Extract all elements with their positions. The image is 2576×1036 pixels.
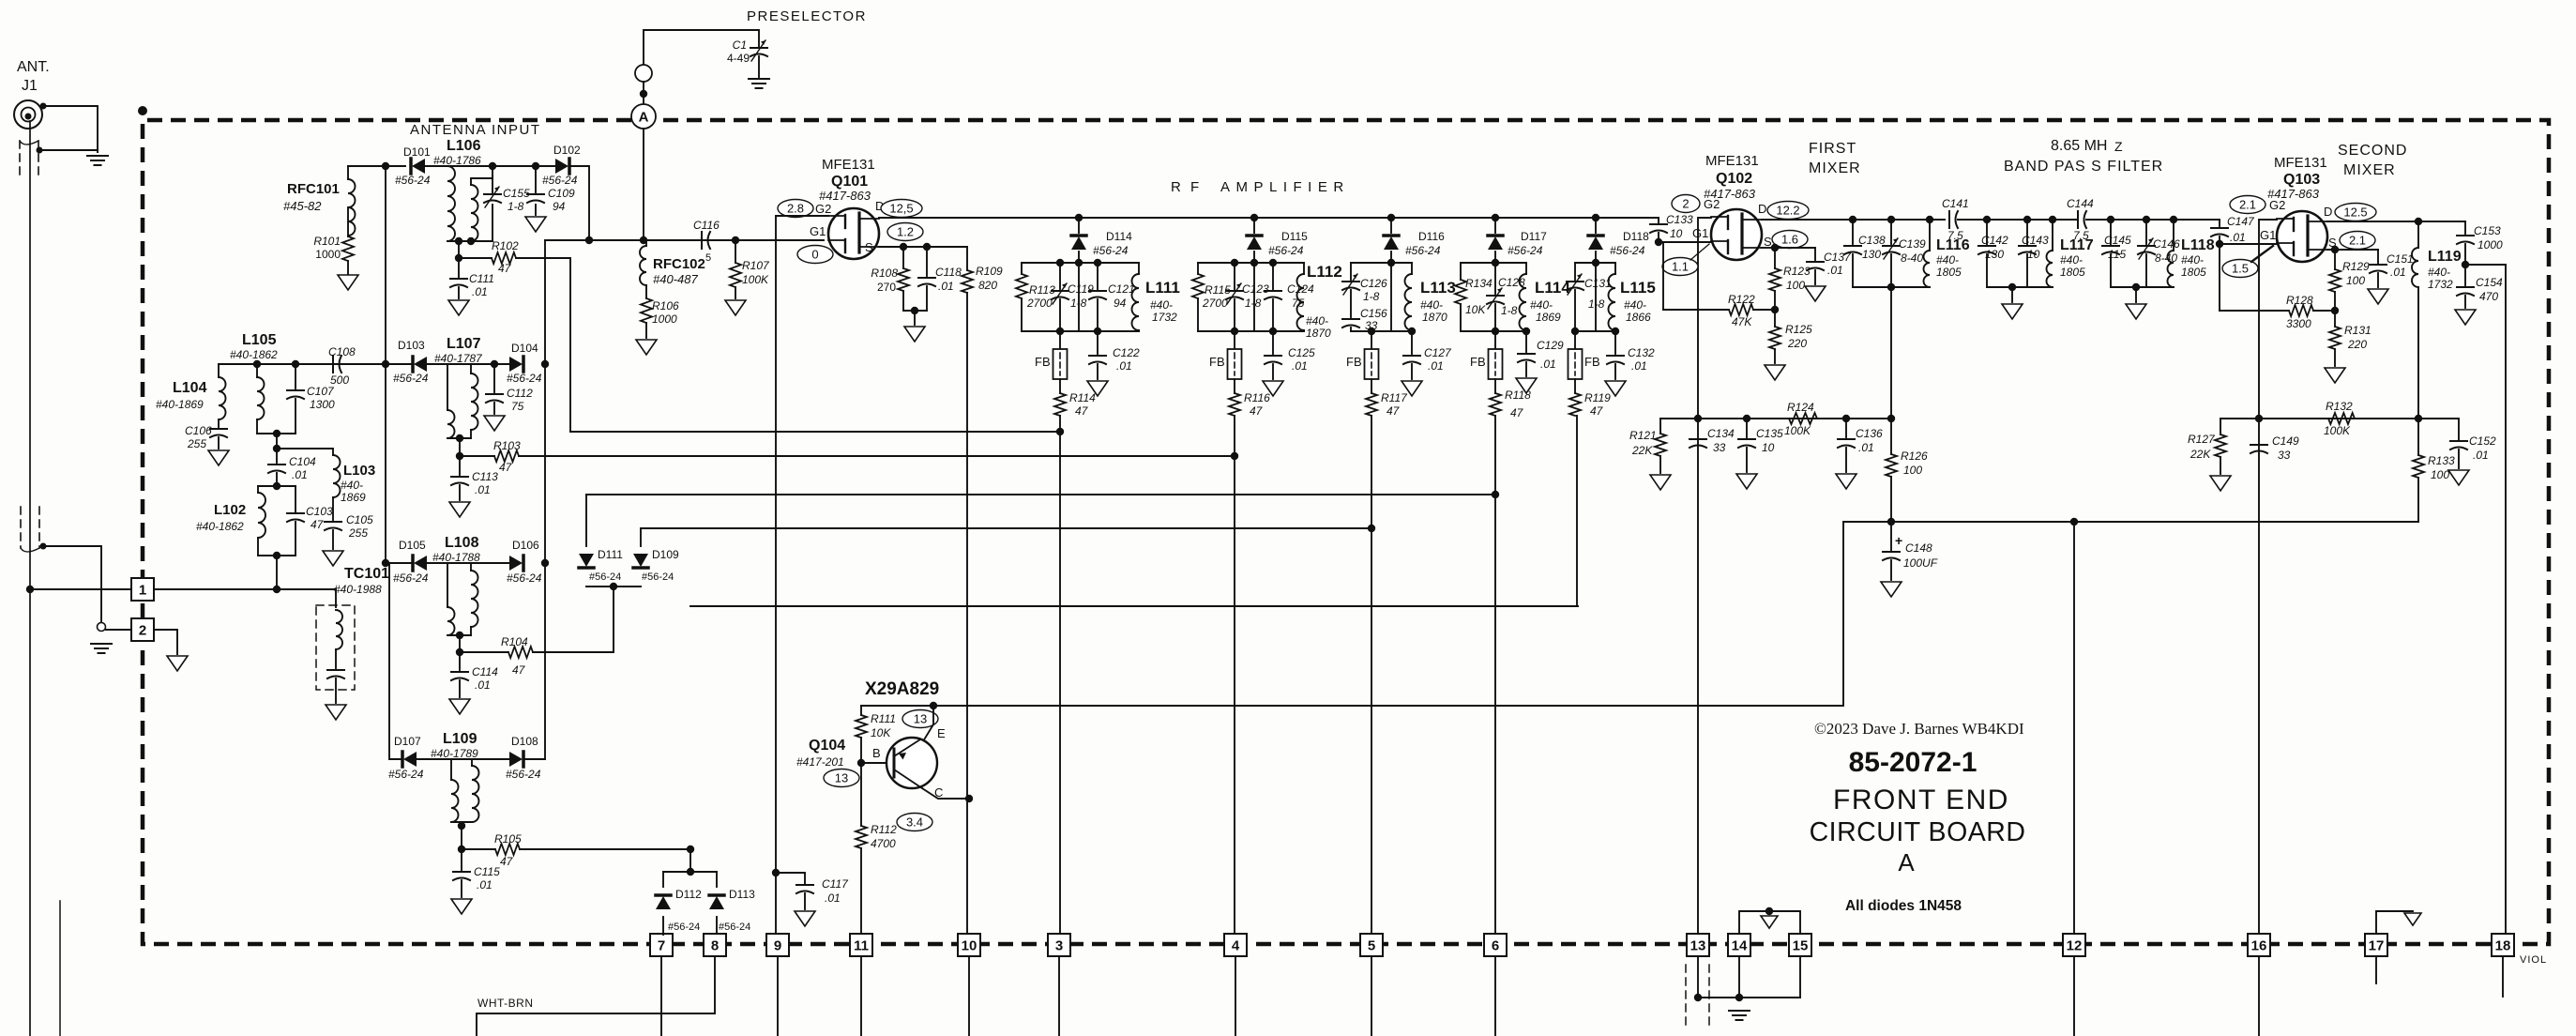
wire band line B (R103 feed): [519, 455, 1235, 457]
svg-text:S: S: [865, 240, 873, 254]
svg-text:C152: C152: [2469, 434, 2496, 448]
tank L115 bottom bar: [1575, 330, 1615, 332]
svg-text:12,5: 12,5: [889, 202, 913, 216]
svg-text:.01: .01: [2230, 231, 2246, 244]
chassis ground below 14: [1729, 1010, 1750, 1012]
svg-text:G2: G2: [1704, 197, 1720, 211]
svg-text:D102: D102: [553, 144, 581, 157]
svg-text:C135: C135: [1756, 427, 1783, 440]
svg-text:6: 6: [1492, 938, 1499, 954]
svg-text:C127: C127: [1424, 346, 1452, 359]
wire D112 to box 7: [662, 934, 664, 935]
wire node A down to G1 bus: [643, 129, 644, 240]
svg-text:1.2: 1.2: [897, 225, 914, 239]
svg-text:47: 47: [1386, 404, 1401, 418]
svg-text:MIXER: MIXER: [1809, 160, 1861, 176]
svg-text:D108: D108: [511, 735, 538, 748]
svg-text:C141: C141: [1942, 197, 1969, 210]
svg-text:#40-: #40-: [1150, 298, 1173, 312]
wire L108 bottom to R104 node: [459, 635, 461, 652]
svg-text:R127: R127: [2188, 433, 2216, 446]
svg-text:7: 7: [658, 938, 665, 954]
svg-text:D101: D101: [403, 145, 431, 159]
svg-text:12.5: 12.5: [2343, 206, 2367, 220]
wire RFC101 to R101: [347, 207, 349, 236]
inductor L103 #40-1869: [277, 449, 333, 455]
node row2 right: [541, 360, 549, 368]
svg-text:R102: R102: [492, 239, 519, 252]
L109 bottom bar: [451, 821, 472, 823]
node Q103 G1: [2216, 240, 2223, 248]
svg-text:470: 470: [2479, 290, 2498, 303]
wire L102 block to pin1 line: [276, 556, 278, 589]
svg-text:#56-24: #56-24: [395, 174, 431, 187]
terminal 16: [2248, 934, 2270, 956]
wire below box 18: [2502, 956, 2504, 997]
ground below C125: [1263, 381, 1283, 396]
wire tank3 column to box 5: [1371, 416, 1372, 935]
wire D103 to L107: [427, 363, 509, 365]
svg-text:10K: 10K: [871, 726, 891, 739]
svg-text:G2: G2: [2269, 198, 2285, 212]
svg-text:R134: R134: [1465, 277, 1493, 290]
node R122/R125: [1771, 306, 1779, 313]
wire D101 to L106: [425, 165, 447, 167]
wire C147 to Q103 G1: [2220, 243, 2277, 245]
wire Q103 G2 to box 16 column: [2259, 220, 2277, 935]
terminal 3: [1048, 934, 1070, 956]
ground below C122: [1087, 381, 1108, 396]
svg-text:47: 47: [1510, 406, 1524, 419]
svg-text:#40-1988: #40-1988: [334, 583, 382, 596]
svg-text:#56-24: #56-24: [1508, 244, 1543, 257]
ground below C112: [484, 416, 505, 431]
wire G1 chain vertical: [544, 240, 546, 759]
svg-text:#40-1787: #40-1787: [434, 352, 483, 365]
node C149: [2255, 415, 2263, 422]
svg-text:C106: C106: [185, 424, 212, 437]
wire below box 17: [2375, 956, 2377, 983]
svg-text:1.6: 1.6: [1781, 233, 1798, 247]
svg-text:CIRCUIT BOARD: CIRCUIT BOARD: [1810, 817, 2026, 847]
node box 12 rail: [2070, 518, 2078, 526]
svg-text:G1: G1: [2260, 228, 2276, 242]
svg-text:R111: R111: [871, 712, 896, 725]
svg-text:L103: L103: [343, 463, 375, 479]
svg-text:D111: D111: [598, 548, 623, 561]
ground below C152: [2448, 470, 2469, 485]
svg-text:Q103: Q103: [2283, 172, 2320, 188]
svg-text:L113: L113: [1420, 279, 1456, 297]
wire connector to node A: [643, 82, 644, 104]
terminal 6: [1484, 934, 1507, 956]
svg-text:C105: C105: [346, 513, 373, 526]
wire R109 to box 10: [966, 293, 968, 935]
E annotation 13: [902, 710, 938, 728]
svg-text:3300: 3300: [2286, 317, 2311, 330]
svg-text:C138: C138: [1858, 234, 1886, 247]
svg-text:#56-24: #56-24: [507, 372, 542, 385]
capacitor C109 94: [535, 166, 537, 192]
svg-text:R129: R129: [2342, 260, 2370, 273]
wire D112/D113 top bar: [687, 846, 694, 853]
svg-text:R126: R126: [1901, 449, 1928, 463]
svg-text:100K: 100K: [2324, 424, 2351, 437]
terminal 17: [2365, 934, 2387, 956]
svg-text:C155: C155: [503, 187, 530, 200]
bandpass block 3 bottom bar: [2111, 286, 2174, 288]
svg-text:D: D: [2324, 205, 2332, 219]
wire row1 rail over L106: [425, 165, 555, 167]
ground below C113: [449, 502, 470, 517]
svg-text:0: 0: [811, 248, 818, 262]
svg-text:D103: D103: [398, 339, 425, 352]
svg-text:MIXER: MIXER: [2343, 162, 2396, 178]
preselector connector circle: [635, 65, 652, 82]
wire second mixer bias bus: [2220, 418, 2458, 419]
svg-text:14: 14: [1732, 938, 1748, 954]
ground below C135: [1736, 474, 1757, 489]
svg-text:C117: C117: [822, 877, 849, 891]
row2 left rail: [219, 363, 413, 365]
terminal 12: [2063, 934, 2085, 956]
ground below C109: [525, 217, 546, 232]
svg-text:C113: C113: [472, 470, 498, 483]
svg-text:16: 16: [2251, 938, 2267, 954]
capacitor C108 500: [219, 363, 330, 365]
transistor Q102 MFE131: [1711, 209, 1762, 260]
wire L106 bottom to R102 node: [458, 241, 460, 258]
svg-text:L109: L109: [443, 731, 477, 747]
ground below C129: [1516, 378, 1537, 393]
wire below box 4: [1235, 956, 1236, 1036]
svg-text:Q104: Q104: [809, 738, 845, 754]
svg-text:R121: R121: [1629, 429, 1657, 442]
svg-text:8-40: 8-40: [1901, 251, 1923, 265]
svg-text:11: 11: [854, 938, 869, 954]
svg-text:G2: G2: [815, 202, 831, 216]
ground below C114: [449, 699, 470, 714]
ground below TC101: [326, 705, 346, 720]
svg-text:1870: 1870: [1306, 327, 1331, 340]
svg-text:75: 75: [511, 400, 524, 413]
svg-text:2.8: 2.8: [787, 202, 804, 216]
svg-text:FB: FB: [1470, 355, 1486, 369]
tank L112 top bar: [1198, 262, 1304, 264]
R108/C118 junction to ground: [903, 310, 927, 312]
ground below R107: [725, 300, 746, 315]
wire Q104 emitter: [923, 706, 933, 741]
wire antenna row 1 rail: [348, 165, 405, 167]
capacitor C113 .01: [459, 456, 461, 475]
wire tank4 column to box 6: [1494, 416, 1496, 935]
wire R128 to G1 node: [2219, 244, 2220, 311]
wire below box 5: [1371, 956, 1372, 1036]
terminal 15: [1789, 934, 1811, 956]
antenna jack J1: [14, 100, 42, 129]
svg-text:FB: FB: [1209, 355, 1225, 369]
svg-text:33: 33: [2278, 449, 2291, 462]
chassis ground at J1: [87, 155, 108, 157]
svg-text:L102: L102: [214, 502, 246, 518]
svg-text:#56-24: #56-24: [1405, 244, 1441, 257]
wire R105 to D112 node: [520, 848, 690, 850]
svg-text:1732: 1732: [2428, 278, 2453, 291]
svg-text:47: 47: [500, 855, 514, 868]
svg-text:#40-487: #40-487: [653, 272, 698, 286]
svg-text:1000: 1000: [315, 248, 341, 261]
transistor Q101 MFE131: [828, 208, 879, 259]
svg-text:1805: 1805: [2060, 266, 2085, 279]
ground below C105: [323, 551, 343, 566]
bandpass block 3 top bar: [2086, 219, 2220, 221]
tank L115 top bar: [1575, 262, 1615, 264]
svg-text:1732: 1732: [1152, 311, 1177, 324]
wire R112 to box 11: [860, 848, 862, 935]
svg-text:C126: C126: [1360, 277, 1387, 290]
svg-text:85-2072-1: 85-2072-1: [1849, 747, 1977, 778]
svg-text:100: 100: [2431, 468, 2449, 481]
svg-text:C114: C114: [472, 665, 498, 678]
G1 annotation 0: [797, 246, 833, 264]
svg-text:.01: .01: [938, 280, 954, 293]
svg-text:94: 94: [1114, 297, 1127, 310]
wire D111/D109 cathodes join: [586, 586, 641, 587]
svg-text:D116: D116: [1418, 230, 1445, 243]
wire Q102 source: [1762, 247, 1775, 249]
capacitor C114 .01: [459, 652, 461, 670]
inductor L106 secondary: [471, 185, 478, 241]
svg-text:Q102: Q102: [1716, 171, 1752, 187]
svg-text:1-8: 1-8: [1363, 290, 1380, 303]
tank L113 top bar: [1351, 262, 1412, 264]
capacitor C155 1-8 (variable): [492, 166, 493, 192]
node A circled: [631, 104, 656, 129]
svg-text:SECOND: SECOND: [2338, 143, 2407, 159]
svg-text:33: 33: [1713, 441, 1726, 454]
svg-text:A: A: [639, 110, 649, 126]
G2 annotation 2.8: [778, 200, 813, 218]
inductor RFC101: [348, 179, 356, 236]
G2 annotation 2.1: [2230, 196, 2265, 214]
svg-text:12.2: 12.2: [1776, 204, 1799, 218]
node R105: [458, 846, 465, 853]
svg-text:X29A829: X29A829: [865, 679, 939, 699]
node C109 top: [532, 162, 539, 170]
wire below box 7: [660, 956, 662, 1036]
L106 bottom bar: [447, 240, 492, 242]
wire antenna vertical chain: [385, 166, 386, 563]
svg-text:#40-1789: #40-1789: [431, 747, 478, 760]
node C153/C154: [2462, 261, 2469, 268]
capacitor C104 .01: [276, 449, 278, 463]
capacitor C111 .01: [458, 258, 460, 277]
svg-text:C121: C121: [1108, 282, 1135, 296]
svg-text:#40-1788: #40-1788: [432, 551, 480, 564]
wire Q103 source: [2327, 249, 2378, 251]
svg-text:10: 10: [1670, 227, 1683, 240]
node A junction dot: [640, 90, 647, 98]
svg-text:G1: G1: [1692, 226, 1708, 240]
svg-text:C111: C111: [469, 272, 494, 285]
wire box 13 shield to ground: [1697, 956, 1699, 998]
junction circle at shield/pin2: [98, 623, 106, 632]
svg-text:2700: 2700: [1026, 297, 1053, 310]
svg-text:J1: J1: [22, 78, 38, 94]
svg-text:E: E: [937, 726, 946, 740]
svg-text:.01: .01: [292, 468, 308, 481]
svg-text:1869: 1869: [341, 491, 366, 504]
wire Q104 collector to box 10 column: [922, 788, 969, 799]
capacitor C115 .01: [461, 849, 462, 870]
svg-text:1.1: 1.1: [1672, 260, 1689, 274]
svg-text:100K: 100K: [742, 273, 769, 286]
svg-text:C112: C112: [507, 387, 533, 400]
svg-text:100: 100: [1903, 464, 1922, 477]
wire antenna line to pin 1: [26, 586, 34, 593]
svg-text:.01: .01: [475, 678, 491, 692]
svg-text:47: 47: [1075, 404, 1089, 418]
svg-text:#40-: #40-: [2181, 253, 2204, 267]
ground below C148: [1881, 582, 1902, 597]
svg-text:L118: L118: [2181, 237, 2215, 253]
svg-text:MFE131: MFE131: [2274, 155, 2327, 171]
svg-text:L114: L114: [1535, 279, 1570, 297]
svg-text:.01: .01: [2473, 449, 2489, 462]
inductor L108 primary: [447, 563, 448, 607]
wire below box 16: [2258, 956, 2260, 1036]
svg-text:FRONT END: FRONT END: [1833, 785, 2009, 815]
wire tank5 column to line E: [1576, 416, 1578, 606]
wire R126 to +13 rail: [1890, 477, 1892, 522]
ground below R121: [1650, 475, 1671, 490]
svg-text:220: 220: [1787, 337, 1807, 350]
svg-text:C129: C129: [1537, 339, 1564, 352]
svg-text:1866: 1866: [1626, 311, 1651, 324]
svg-text:2.1: 2.1: [2239, 198, 2256, 212]
inductor L105 winding: [256, 364, 258, 377]
capacitor C106 255: [218, 419, 220, 427]
svg-text:2.1: 2.1: [2349, 234, 2366, 248]
svg-text:D: D: [1758, 202, 1766, 216]
svg-text:1805: 1805: [1936, 266, 1962, 279]
svg-text:#56-24: #56-24: [589, 571, 621, 583]
svg-text:C119: C119: [1068, 282, 1094, 296]
svg-text:FB: FB: [1035, 355, 1051, 369]
terminal 18: [2492, 934, 2514, 956]
svg-text:270: 270: [877, 281, 896, 294]
svg-text:2700: 2700: [1202, 297, 1228, 310]
tank L114 top bar: [1461, 262, 1526, 264]
svg-text:C156: C156: [1360, 307, 1387, 320]
wire to C104 node: [276, 434, 278, 449]
wire G1 bus: [545, 239, 824, 241]
wire source to C137: [1775, 247, 1815, 249]
svg-text:R109: R109: [976, 265, 1003, 278]
wire D115 anode through tank: [1253, 263, 1255, 331]
svg-text:100: 100: [1786, 279, 1805, 292]
svg-text:8-40: 8-40: [2155, 251, 2177, 265]
wire pin 2 to board ground: [154, 630, 177, 654]
wire R133 to +13 rail: [2417, 478, 2419, 522]
svg-text:C136: C136: [1856, 427, 1883, 440]
chassis ground below C1: [749, 78, 769, 80]
svg-text:RFC102: RFC102: [653, 256, 705, 272]
svg-text:C122: C122: [1113, 346, 1140, 359]
capacitor C1 4-49 (variable): [750, 47, 767, 49]
svg-text:22K: 22K: [1631, 444, 1653, 457]
ground below R131: [2325, 368, 2345, 383]
coax shield dashes at J1: [19, 141, 21, 180]
svg-text:.01: .01: [1540, 358, 1556, 371]
svg-text:FB: FB: [1346, 355, 1362, 369]
svg-text:4: 4: [1232, 938, 1240, 954]
tank L111 top bar: [1022, 262, 1139, 264]
svg-text:1-8: 1-8: [1245, 297, 1262, 310]
svg-text:9: 9: [774, 938, 781, 954]
terminal 4: [1224, 934, 1247, 956]
terminal 8: [704, 934, 726, 956]
svg-text:#40-: #40-: [1530, 298, 1553, 312]
ground below C132: [1605, 381, 1626, 396]
svg-text:C116: C116: [693, 219, 720, 232]
svg-text:G1: G1: [810, 224, 826, 238]
svg-text:C143: C143: [2022, 234, 2049, 247]
svg-text:D106: D106: [512, 539, 539, 552]
node row2: [382, 360, 389, 368]
svg-text:#56-24: #56-24: [542, 174, 578, 187]
svg-text:8.65 MH: 8.65 MH: [2051, 138, 2107, 154]
svg-text:Q101: Q101: [831, 174, 868, 190]
svg-text:#56-24: #56-24: [1268, 244, 1304, 257]
svg-text:#56-24: #56-24: [393, 372, 429, 385]
svg-text:#56-24: #56-24: [1610, 244, 1645, 257]
L102 block top bar: [258, 485, 295, 487]
svg-text:1300: 1300: [310, 398, 335, 411]
svg-text:L105: L105: [242, 332, 277, 348]
svg-text:C132: C132: [1628, 346, 1655, 359]
svg-text:C134: C134: [1707, 427, 1735, 440]
node C112 top: [491, 360, 498, 368]
svg-text:D118: D118: [1623, 230, 1649, 243]
coax shield dashes lower: [20, 507, 22, 548]
wire +13V feed line F: [861, 522, 1843, 706]
svg-text:3.4: 3.4: [906, 815, 923, 830]
svg-text:L112: L112: [1307, 263, 1342, 281]
svg-text:D105: D105: [399, 539, 426, 552]
svg-text:#40-: #40-: [1624, 298, 1646, 312]
svg-text:R106: R106: [652, 299, 679, 312]
bandpass block 1 bottom bar: [1853, 286, 1930, 288]
svg-text:.01: .01: [472, 285, 488, 298]
svg-text:47K: 47K: [1732, 315, 1752, 328]
svg-text:C109: C109: [548, 187, 575, 200]
wire below box 9: [777, 956, 779, 1036]
svg-text:R116: R116: [1244, 391, 1270, 404]
transistor Q103 MFE131: [2277, 211, 2327, 262]
wire Q104 base: [857, 759, 865, 767]
wire tank2 column to box 4: [1234, 416, 1235, 935]
svg-text:©2023 Dave J. Barnes WB4KDI: ©2023 Dave J. Barnes WB4KDI: [1814, 720, 2024, 738]
svg-text:100: 100: [2346, 274, 2365, 287]
wire Q101 G2 to box 9 column: [776, 216, 828, 935]
svg-text:AMPLIFIER: AMPLIFIER: [1220, 179, 1350, 195]
svg-text:D117: D117: [1521, 230, 1547, 243]
svg-text:1870: 1870: [1422, 311, 1447, 324]
tank L112 bottom bar: [1198, 330, 1304, 332]
ground below C115: [451, 899, 472, 914]
svg-text:TC101: TC101: [344, 566, 389, 582]
